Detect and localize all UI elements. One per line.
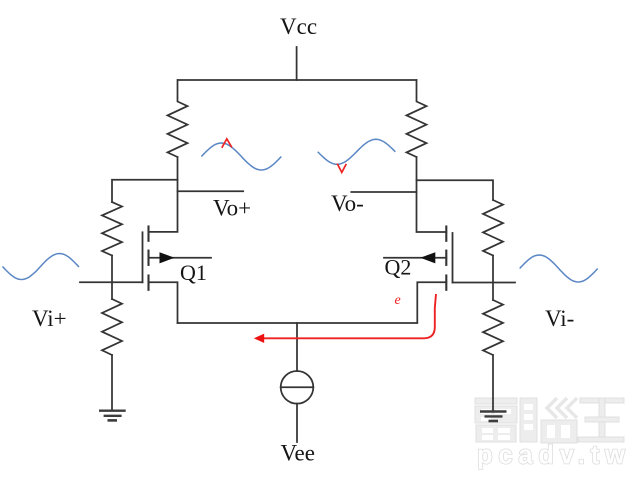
transistor Q2 gate bar <box>452 233 454 283</box>
wire Q2 source down <box>417 282 446 323</box>
resistor RD1 (left load) <box>168 80 188 157</box>
waveform right output (blue sine) <box>318 139 396 164</box>
svg-text:Vo-: Vo- <box>331 191 364 216</box>
marker red caret on right output trough <box>337 164 346 173</box>
wire Vi+ gate wire <box>80 281 143 283</box>
watermark chevrons <box>547 398 577 418</box>
current source I1 circle <box>281 371 314 404</box>
svg-text:Vcc: Vcc <box>280 14 317 39</box>
wire right bias top <box>417 180 494 200</box>
resistor R3 (right bias upper) <box>483 200 503 256</box>
transistor Q1 body line <box>149 257 212 259</box>
wire left bias top <box>112 180 178 202</box>
marker red caret on left output crest <box>222 139 232 148</box>
wire tail lower <box>296 404 298 442</box>
wire right bias to ground <box>492 355 494 412</box>
transistor Q2 body line <box>384 257 446 259</box>
wire Q1 source down <box>149 282 178 323</box>
wire tail upper <box>296 323 298 371</box>
wire Vcc stub <box>296 47 298 80</box>
wire left drain vertical <box>149 157 178 232</box>
transistor Q2 channel bars <box>445 227 447 290</box>
resistor R4 (right bias lower) <box>483 300 503 355</box>
waveform right input (blue sine) <box>520 255 598 282</box>
svg-text:pcadv.tw: pcadv.tw <box>477 442 631 470</box>
wire bottom rail <box>178 322 417 324</box>
waveform left input (blue sine) <box>3 254 80 280</box>
svg-text:Vi-: Vi- <box>545 306 574 331</box>
wire right drain vertical <box>417 157 447 232</box>
wire left bias mid <box>111 256 113 300</box>
current source I1 chord <box>281 386 314 388</box>
resistor R2 (left bias lower) <box>102 299 122 355</box>
wire top rail Vcc <box>178 79 417 81</box>
watermark block char 1 <box>475 398 517 442</box>
svg-text:e: e <box>395 293 401 308</box>
red current path <box>257 294 437 338</box>
red current arrowhead <box>254 334 264 343</box>
transistor Q1 channel bars <box>147 227 149 290</box>
svg-text:Vi+: Vi+ <box>32 306 67 331</box>
svg-text:Q2: Q2 <box>385 255 412 280</box>
ground right <box>480 412 507 422</box>
svg-text:Q1: Q1 <box>180 260 207 285</box>
wire Vi- gate wire <box>453 282 516 284</box>
ground left <box>99 411 126 421</box>
watermark block char 2 <box>520 398 577 443</box>
resistor RD2 (right load) <box>407 80 427 157</box>
resistor R1 (left bias upper) <box>102 202 122 256</box>
wire right bias mid <box>492 256 494 301</box>
waveform left output (blue sine) <box>201 143 281 170</box>
watermark block char 3 <box>578 398 624 442</box>
wire left bias to ground <box>111 355 113 411</box>
wire Vo+ tap <box>178 190 244 192</box>
wire Vo- tap <box>351 191 416 193</box>
svg-text:Vee: Vee <box>281 441 315 466</box>
transistor Q1 gate bar <box>142 232 144 282</box>
transistor Q2 arrow <box>420 252 435 263</box>
transistor Q1 arrow <box>160 252 175 263</box>
svg-text:Vo+: Vo+ <box>213 196 251 221</box>
